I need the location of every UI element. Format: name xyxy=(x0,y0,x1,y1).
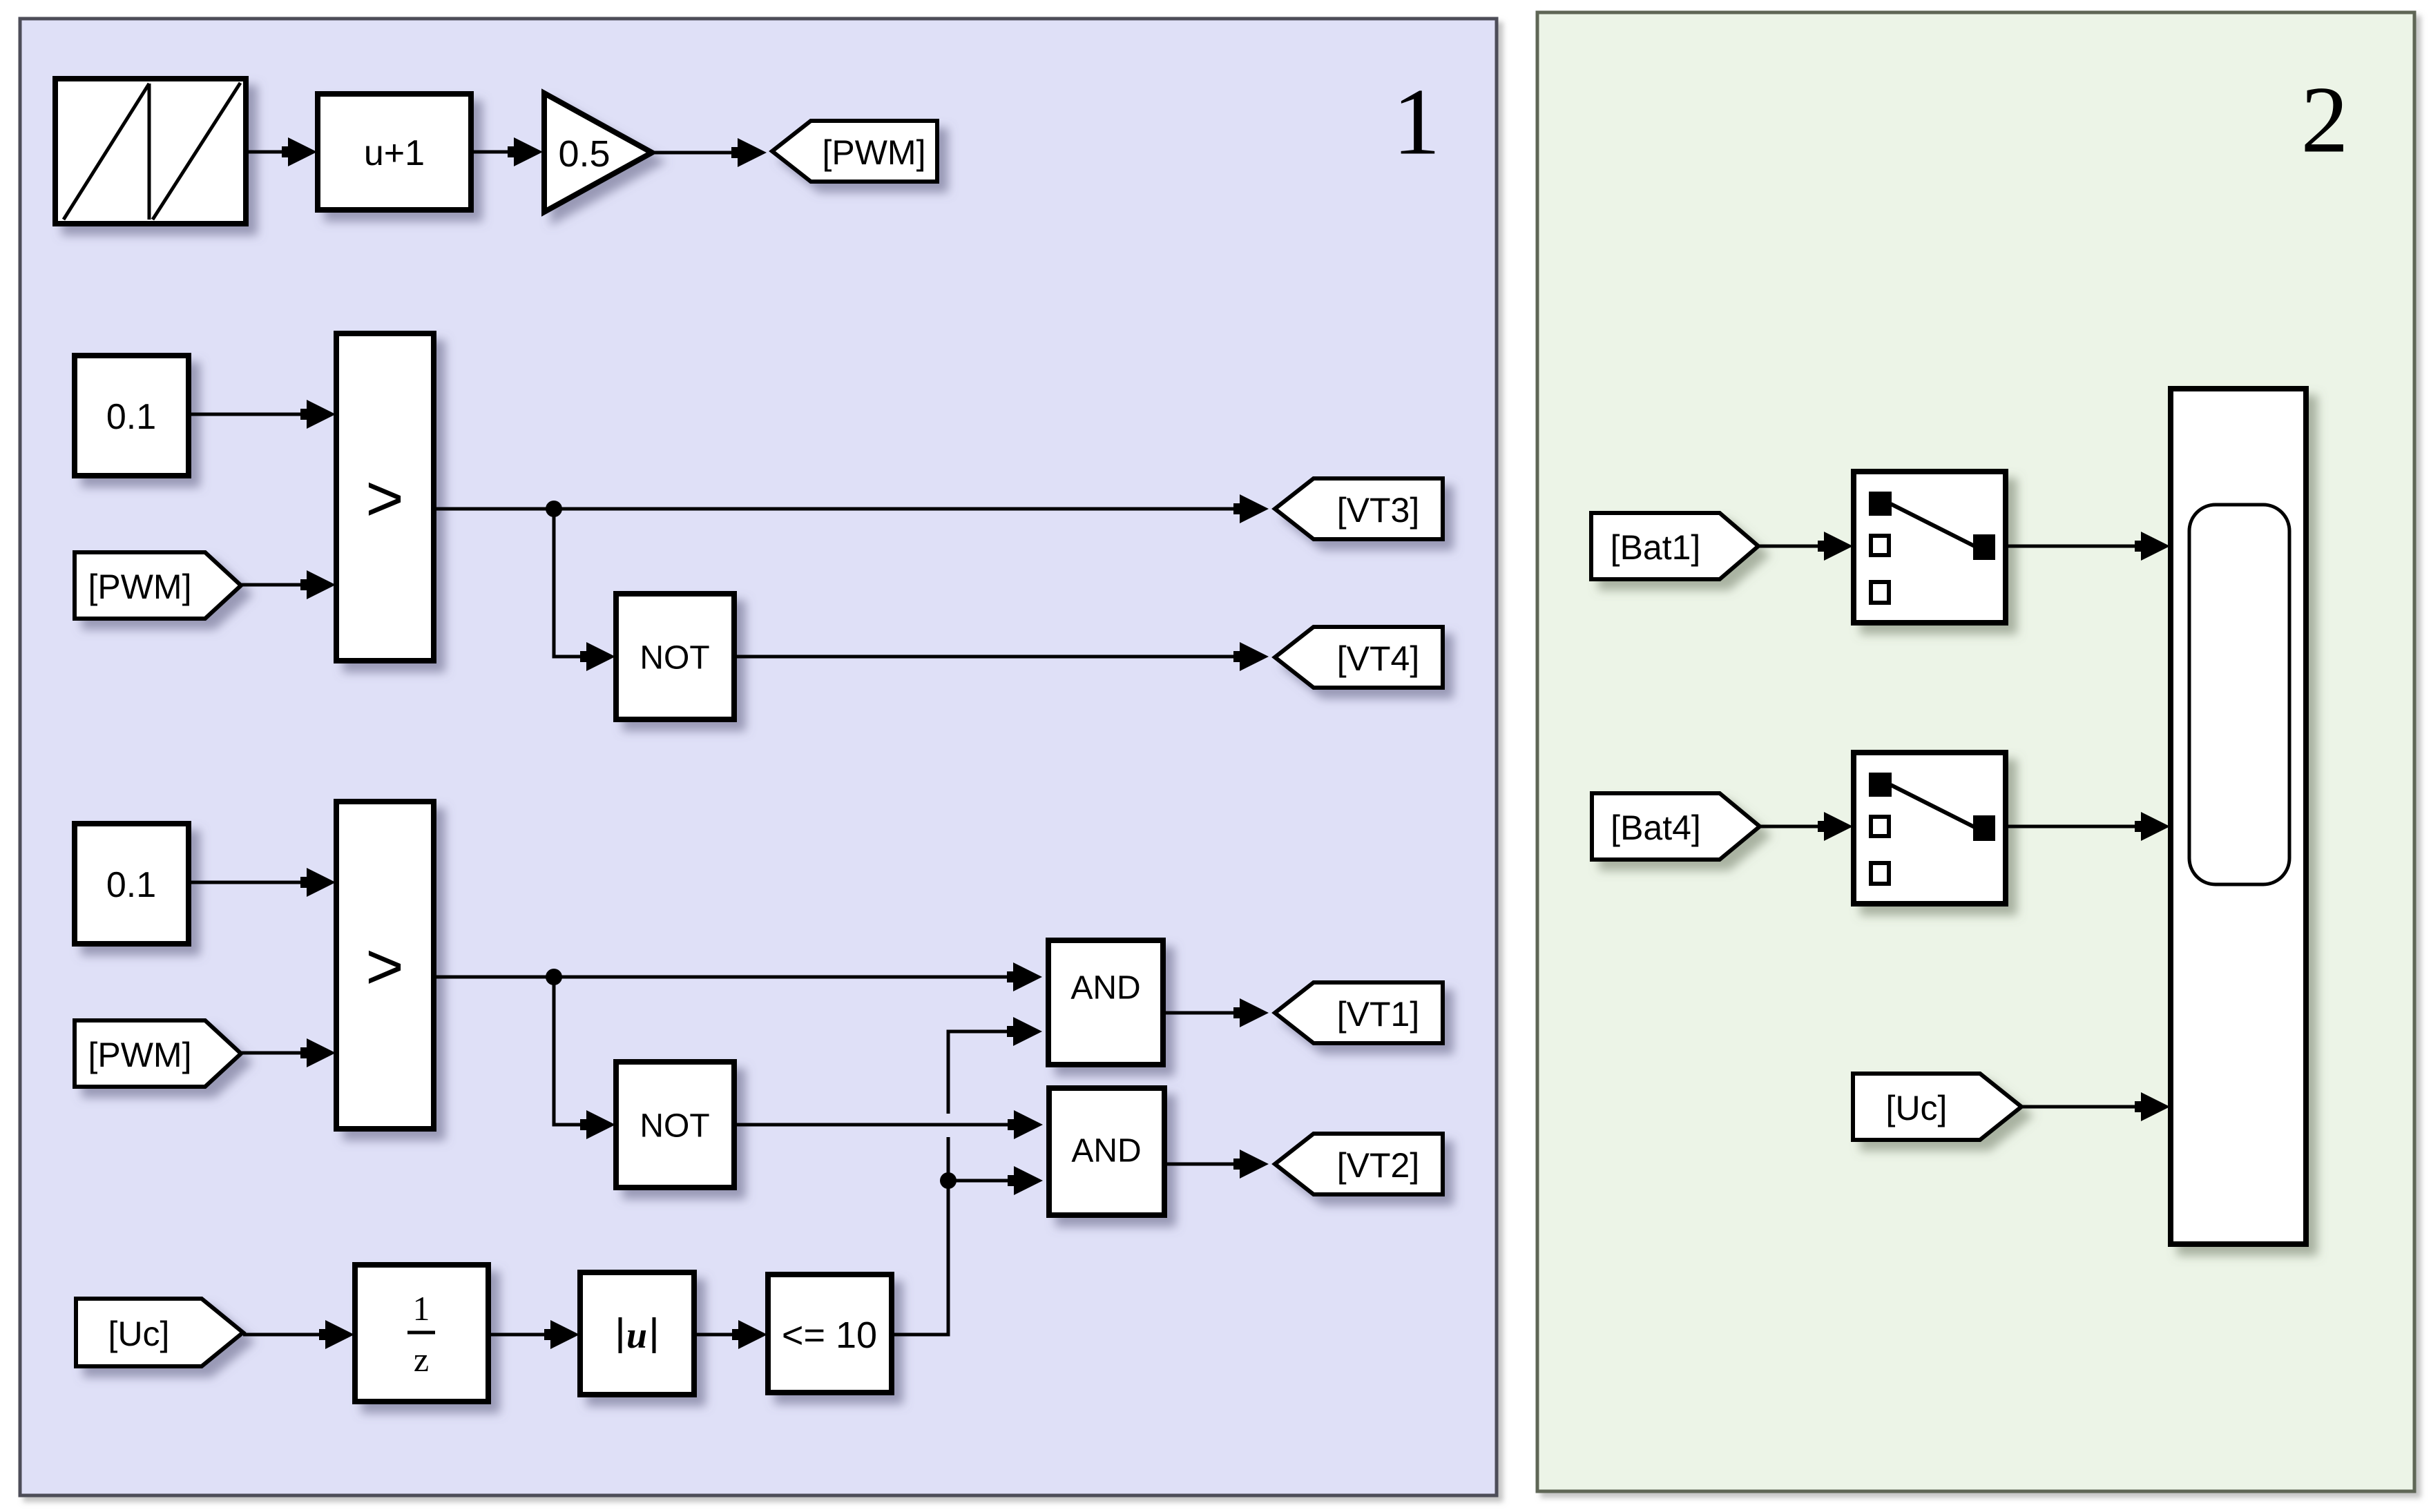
wire relational operator 1 to goto VT3 xyxy=(434,507,1263,511)
wire Uc to unit delay xyxy=(243,1333,349,1337)
compare to constant block <= 10 xyxy=(768,1274,892,1393)
goto tag [VT3] xyxy=(1275,478,1443,539)
wire abs to compare to constant xyxy=(694,1333,762,1337)
relational operator > (upper) xyxy=(336,333,434,661)
logical operator NOT (upper) xyxy=(616,594,734,719)
svg-text:[PWM]: [PWM] xyxy=(88,1036,192,1074)
wire from PWM to relational operator 1 input 2 xyxy=(241,583,330,587)
svg-text:[PWM]: [PWM] xyxy=(88,568,192,606)
wire NOT 1 to goto VT4 xyxy=(734,655,1263,659)
wire junction down to NOT 2 xyxy=(554,977,610,1125)
svg-text:>: > xyxy=(365,930,403,1003)
svg-text:u: u xyxy=(626,1315,647,1356)
switch icon xyxy=(1869,773,1995,884)
wire riser branch to AND 2 input 2 xyxy=(948,1179,1037,1183)
wire switch 1 to scope input 1 xyxy=(2006,545,2164,548)
svg-text:<= 10: <= 10 xyxy=(782,1315,877,1356)
wire AND 1 to goto VT1 xyxy=(1163,1011,1263,1015)
wire switch 2 to scope input 2 xyxy=(2006,825,2164,828)
svg-text:[Bat1]: [Bat1] xyxy=(1611,528,1701,567)
wire Uc to scope input 3 xyxy=(2021,1105,2164,1109)
wire constant 0.1 to relational operator 2 input 1 xyxy=(189,881,330,884)
goto tag [VT1] xyxy=(1275,982,1443,1043)
svg-text:[Uc]: [Uc] xyxy=(108,1315,170,1353)
svg-text:[Uc]: [Uc] xyxy=(1886,1089,1948,1127)
wire sawtooth to u+1 xyxy=(246,151,312,154)
svg-text:0.1: 0.1 xyxy=(106,865,156,905)
svg-text:>: > xyxy=(365,462,403,535)
svg-text:0.5: 0.5 xyxy=(558,133,610,175)
junction node riser to AND 2 xyxy=(940,1172,957,1189)
switch icon xyxy=(1869,492,1995,603)
from tag [PWM] (lower) xyxy=(75,1020,241,1087)
svg-text:[VT1]: [VT1] xyxy=(1337,995,1419,1034)
wire AND 2 to goto VT2 xyxy=(1164,1163,1263,1166)
constant 0.1 (upper) xyxy=(75,356,189,476)
wire u+1 to gain 0.5 xyxy=(471,151,538,154)
abs block |u| xyxy=(580,1272,694,1395)
relational operator > (lower) xyxy=(336,802,434,1129)
svg-text:[Bat4]: [Bat4] xyxy=(1611,808,1701,847)
subsystem panel 1 background xyxy=(20,19,1497,1495)
junction node (lower) xyxy=(546,969,562,985)
wire unit delay to abs xyxy=(488,1333,574,1337)
wire riser (upper segment) to AND 1 input 2 xyxy=(948,1031,1037,1114)
wire NOT 2 to AND 2 input 1 xyxy=(734,1123,1037,1127)
unit delay block 1/z xyxy=(355,1265,488,1402)
from tag [PWM] (upper) xyxy=(75,552,241,619)
svg-text:AND: AND xyxy=(1071,1133,1141,1170)
switch block 2 xyxy=(1854,753,2006,904)
goto tag [PWM] xyxy=(772,121,937,182)
gain block 0.5 xyxy=(544,93,652,212)
logical operator NOT (lower) xyxy=(616,1062,734,1188)
from tag [Bat4] xyxy=(1592,793,1760,860)
switch block 1 xyxy=(1854,472,2006,623)
svg-text:[PWM]: [PWM] xyxy=(823,133,926,172)
goto tag [VT2] xyxy=(1275,1134,1443,1194)
svg-text:AND: AND xyxy=(1070,970,1140,1007)
math function block u+1 xyxy=(318,94,471,210)
abs |u| label xyxy=(619,1317,622,1353)
from tag [Bat1] xyxy=(1591,513,1758,579)
wire Bat4 to switch 2 xyxy=(1760,825,1847,828)
wire junction down to NOT 1 xyxy=(554,509,610,657)
svg-text:NOT: NOT xyxy=(640,1108,709,1145)
wire compare output to riser (lower segment) xyxy=(892,1137,948,1335)
repeating sequence (sawtooth) source block xyxy=(55,79,246,224)
svg-text:1: 1 xyxy=(413,1289,430,1328)
svg-text:z: z xyxy=(414,1340,429,1379)
svg-text:[VT4]: [VT4] xyxy=(1337,639,1419,678)
goto tag [VT4] xyxy=(1275,627,1443,688)
wire relational operator 2 to AND 1 input 1 xyxy=(434,976,1037,979)
junction node (upper) xyxy=(546,501,562,517)
scope inner screen xyxy=(2189,505,2289,884)
svg-text:[VT2]: [VT2] xyxy=(1337,1146,1419,1185)
svg-text:[VT3]: [VT3] xyxy=(1337,491,1419,530)
subsystem panel 2 background xyxy=(1537,12,2414,1491)
constant 0.1 (lower) xyxy=(75,824,189,944)
from tag [Uc] (panel 2) xyxy=(1853,1074,2021,1140)
svg-text:0.1: 0.1 xyxy=(106,397,156,437)
svg-text:NOT: NOT xyxy=(640,640,709,677)
svg-text:1: 1 xyxy=(1393,69,1441,175)
sawtooth icon xyxy=(64,83,240,220)
scope block xyxy=(2171,389,2306,1244)
wire gain to goto PWM xyxy=(652,151,762,155)
wire from PWM to relational operator 2 input 2 xyxy=(241,1051,330,1055)
wire constant 0.1 to relational operator 1 input 1 xyxy=(189,413,330,416)
from tag [Uc] (panel 1) xyxy=(76,1299,243,1366)
logical operator AND (lower) xyxy=(1049,1088,1164,1215)
svg-text:2: 2 xyxy=(2301,67,2349,173)
logical operator AND (upper) xyxy=(1048,940,1163,1065)
svg-text:u+1: u+1 xyxy=(364,133,425,173)
wire Bat1 to switch 1 xyxy=(1758,545,1847,548)
